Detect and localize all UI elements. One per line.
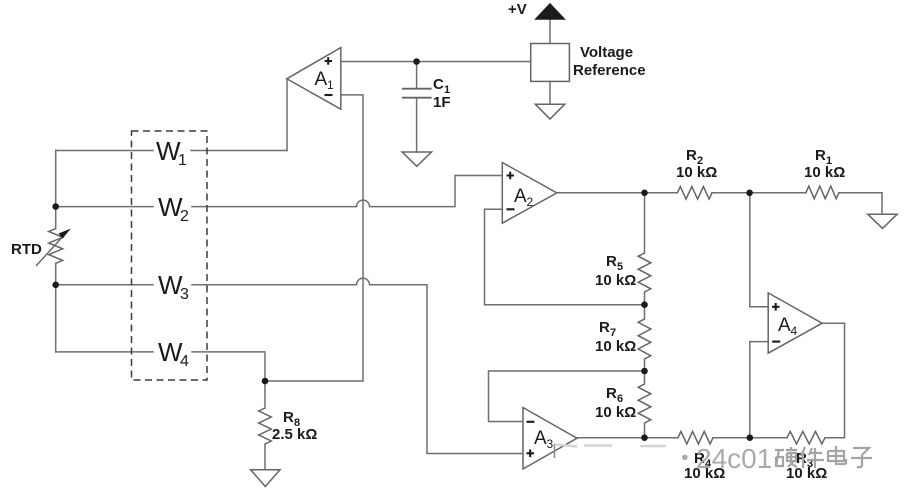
- ground (R8): [251, 470, 280, 487]
- RTD variable resistor: [49, 229, 63, 264]
- op-amp A2: [502, 163, 557, 224]
- svg-text:RTD: RTD: [11, 241, 42, 258]
- A4 + mark: [772, 303, 780, 311]
- wire: A4 output: [822, 322, 844, 324]
- node R2-R1: [746, 190, 753, 197]
- resistor R4: [678, 431, 713, 444]
- wire: A4 + to R2/R1 node: [750, 193, 768, 307]
- svg-text:2: 2: [527, 195, 534, 209]
- svg-text:1F: 1F: [433, 94, 451, 111]
- wire: divider chain R5 R7 R6: [644, 193, 646, 438]
- svg-text:R: R: [283, 409, 294, 426]
- wire: C1 leads: [416, 62, 418, 153]
- node R4-R3: [747, 434, 754, 441]
- op-amp A3: [523, 408, 577, 470]
- svg-text:A: A: [315, 69, 328, 90]
- ground (R1): [868, 214, 897, 228]
- resistor R3: [787, 431, 825, 444]
- svg-text:R: R: [606, 385, 617, 402]
- wire: A1 + input to voltage reference: [341, 61, 531, 63]
- wire: A1 output to W1: [286, 79, 288, 151]
- watermark glyph 电: [828, 446, 846, 464]
- svg-text:R: R: [599, 319, 610, 336]
- svg-text:4: 4: [791, 324, 798, 338]
- svg-text:10 kΩ: 10 kΩ: [676, 164, 717, 181]
- svg-text:2: 2: [180, 208, 189, 225]
- svg-text:4: 4: [180, 353, 189, 370]
- A3 - mark: [527, 421, 535, 423]
- wire: R8 node to A1 - input: [265, 95, 363, 381]
- svg-text:10 kΩ: 10 kΩ: [595, 404, 636, 421]
- svg-text:A: A: [514, 186, 527, 207]
- resistor R8: [259, 408, 272, 444]
- wire W3 to A3 + input: [56, 278, 523, 453]
- wire: A2 - feedback to R5/R7 node: [485, 209, 645, 304]
- wire W1: [56, 150, 287, 152]
- svg-text:3: 3: [547, 437, 554, 451]
- wire: A3 output rail: [577, 323, 845, 438]
- ground (C1): [402, 152, 431, 166]
- wire: left rail W1-W4: [55, 151, 57, 352]
- resistor R1: [806, 186, 839, 199]
- svg-text:1: 1: [178, 152, 187, 169]
- wire: A3 - to R7/R6 node: [489, 371, 645, 422]
- wire W2 to A2 + input: [56, 176, 503, 207]
- svg-text:10 kΩ: 10 kΩ: [595, 272, 636, 289]
- node R5-R7: [641, 301, 648, 308]
- resistor R2: [677, 187, 712, 200]
- capacitor C1: [402, 89, 432, 98]
- op-amp A1: [287, 48, 341, 110]
- svg-text:R: R: [606, 253, 617, 270]
- svg-text:+V: +V: [508, 1, 527, 18]
- ground (voltage reference): [535, 104, 564, 119]
- dashed box (RTD wiring): [132, 131, 208, 380]
- svg-text:A: A: [778, 315, 791, 336]
- watermark glyph 件: [801, 447, 805, 468]
- svg-text:R: R: [686, 147, 697, 164]
- svg-text:R: R: [815, 147, 826, 164]
- resistor R7: [638, 319, 651, 359]
- svg-text:10 kΩ: 10 kΩ: [786, 465, 827, 482]
- A1 - mark: [325, 94, 333, 96]
- svg-text:Reference: Reference: [573, 62, 646, 79]
- svg-text:1: 1: [327, 78, 334, 92]
- watermark glyph 子: [851, 448, 872, 467]
- A3 + mark: [527, 450, 535, 458]
- node A2 out: [641, 190, 648, 197]
- svg-text:10 kΩ: 10 kΩ: [595, 338, 636, 355]
- wire: A2 output rail: [557, 193, 882, 214]
- node C1 top: [413, 58, 420, 65]
- svg-text:A: A: [534, 428, 547, 449]
- A2 - mark: [507, 208, 515, 210]
- svg-text:10 kΩ: 10 kΩ: [804, 164, 845, 181]
- watermark glyph 硬: [775, 450, 784, 466]
- A2 + mark: [507, 172, 515, 180]
- op-amp A4: [768, 293, 822, 353]
- svg-text:3: 3: [180, 286, 189, 303]
- resistor R6: [638, 384, 651, 423]
- wire: voltage reference leads: [549, 19, 551, 104]
- voltage reference box: [531, 44, 570, 82]
- watermark remnants near A3: [554, 444, 556, 459]
- node W3-RTD: [52, 282, 59, 289]
- node R8 top: [262, 378, 269, 385]
- svg-text:24c01: 24c01: [696, 443, 772, 474]
- A1 + mark: [325, 57, 333, 65]
- node R6-rail: [641, 434, 648, 441]
- svg-text:Voltage: Voltage: [580, 44, 633, 61]
- svg-text:C: C: [433, 76, 444, 93]
- wire: R8 leads: [264, 381, 266, 470]
- node R7-R6: [641, 368, 648, 375]
- A4 - mark: [772, 341, 780, 343]
- svg-text:2.5 kΩ: 2.5 kΩ: [272, 426, 317, 443]
- watermark dot: [682, 455, 688, 461]
- wire W4 to R8 node: [56, 352, 265, 381]
- node W2-RTD: [52, 203, 59, 210]
- wire: A4 - to R4/R3 node: [750, 342, 768, 438]
- +V power symbol: [535, 4, 564, 20]
- resistor R5: [638, 253, 651, 292]
